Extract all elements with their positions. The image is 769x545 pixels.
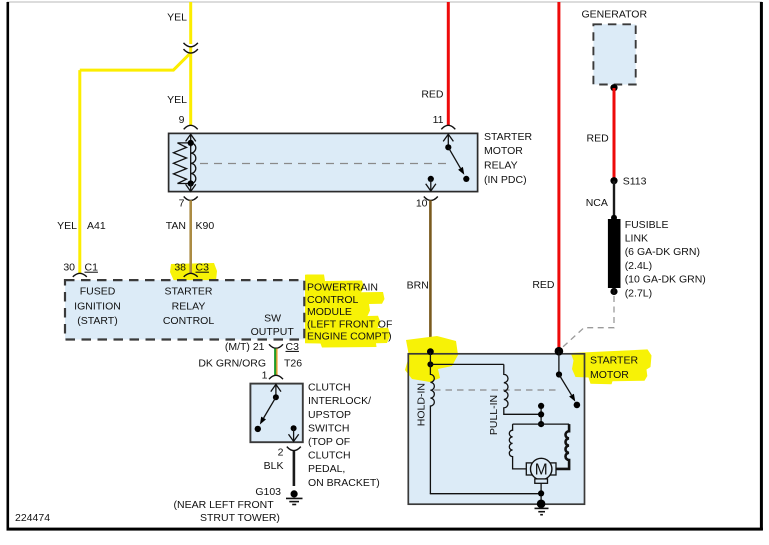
svg-text:A41: A41 — [87, 220, 106, 232]
svg-text:(M/T) 21: (M/T) 21 — [225, 341, 265, 353]
starter case ground — [535, 500, 549, 515]
label DK GRN/ORG T26 — [198, 357, 302, 369]
generator box — [593, 24, 635, 84]
highlight starter box corner — [405, 336, 458, 382]
label YEL A41 — [57, 220, 106, 232]
starter switch fixed contact node — [574, 402, 581, 409]
relay coil shaft — [190, 143, 192, 184]
highlight over C3 pin 38 — [170, 263, 217, 287]
connector at PCM pin 38 — [184, 273, 198, 277]
starter switch shaft — [558, 351, 560, 374]
label TAN K90 — [166, 220, 215, 232]
inline connector C100 on YEL — [184, 43, 198, 53]
connector at clutch switch pin 1 — [269, 375, 283, 379]
svg-text:7: 7 — [179, 198, 185, 210]
svg-text:MODULE: MODULE — [307, 306, 352, 318]
starter hold-in branch node — [427, 361, 433, 367]
svg-text:ON BRACKET): ON BRACKET) — [308, 477, 380, 489]
label fusible link — [625, 219, 706, 299]
svg-text:HOLD-IN: HOLD-IN — [415, 383, 427, 426]
svg-text:(2.7L): (2.7L) — [625, 287, 652, 299]
svg-text:RED: RED — [421, 89, 444, 101]
PCM label SW OUTPUT — [251, 313, 295, 339]
PCM module name label — [307, 282, 392, 343]
wire YEL main vertical top — [189, 2, 192, 44]
motor field coil left — [509, 424, 526, 469]
svg-text:STARTER: STARTER — [484, 131, 532, 143]
svg-text:FUSIBLE: FUSIBLE — [625, 219, 669, 231]
svg-text:OUTPUT: OUTPUT — [251, 326, 295, 338]
svg-text:LINK: LINK — [625, 233, 648, 245]
svg-text:BLK: BLK — [264, 460, 284, 472]
svg-text:38: 38 — [174, 262, 186, 274]
svg-text:POWERTRAIN: POWERTRAIN — [307, 282, 378, 294]
svg-text:10: 10 — [416, 198, 428, 210]
svg-text:SWITCH: SWITCH — [308, 422, 349, 434]
svg-text:CONTROL: CONTROL — [307, 294, 358, 306]
svg-text:S113: S113 — [623, 175, 647, 187]
clutch switch pin 1 arrow — [271, 384, 281, 394]
connector at relay pin 9 — [184, 125, 198, 129]
fusible link element — [608, 215, 621, 295]
clutch interlock switch box — [250, 384, 302, 443]
motor armature M — [531, 458, 552, 483]
svg-text:(2.4L): (2.4L) — [625, 260, 652, 272]
starter internal dashed line — [434, 389, 557, 391]
svg-text:(IN PDC): (IN PDC) — [484, 174, 527, 186]
clutch switch fixed contact node — [255, 426, 261, 432]
svg-text:(TOP OF: (TOP OF — [308, 436, 350, 448]
svg-text:MOTOR: MOTOR — [484, 145, 523, 157]
relay internal dashed line — [200, 163, 452, 165]
svg-text:ENGINE COMPT): ENGINE COMPT) — [307, 331, 392, 343]
relay coil resistor zigzag — [174, 143, 191, 184]
svg-text:9: 9 — [179, 114, 185, 126]
clutch switch pivot node — [273, 394, 279, 400]
label STARTER MOTOR — [590, 354, 638, 381]
relay box STARTER MOTOR RELAY — [169, 133, 478, 191]
dashed link fusible to starter stud — [560, 296, 615, 350]
svg-text:C1: C1 — [85, 262, 99, 274]
wire YEL branch diagonal — [80, 53, 191, 70]
svg-text:YEL: YEL — [167, 12, 187, 24]
svg-text:IGNITION: IGNITION — [74, 300, 121, 312]
label pin 30 C1 — [63, 262, 98, 274]
wire TAN pin7 to PCM 38 — [189, 200, 192, 273]
PCM box powertrain control module — [65, 280, 304, 339]
svg-text:RED: RED — [587, 132, 610, 144]
svg-text:(10 GA-DK GRN): (10 GA-DK GRN) — [625, 274, 706, 286]
svg-text:INTERLOCK/: INTERLOCK/ — [308, 395, 371, 407]
clutch switch label — [308, 382, 380, 489]
relay pin 11 arrow — [443, 134, 453, 144]
clutch switch blade — [260, 397, 276, 424]
wire RED to relay pin 11 — [447, 2, 450, 126]
relay coil node bottom — [188, 180, 194, 186]
label (M/T) 21 C3 — [225, 341, 299, 353]
svg-text:C3: C3 — [196, 262, 210, 274]
svg-text:CONTROL: CONTROL — [163, 315, 214, 327]
svg-text:11: 11 — [433, 114, 444, 126]
label pin 38 C3 — [174, 262, 209, 274]
ground G103 — [286, 490, 303, 504]
svg-text:RED: RED — [532, 279, 555, 291]
relay pin 9 arrow — [186, 134, 196, 147]
label ground location — [174, 499, 280, 524]
connector at PCM pin 21 — [269, 344, 283, 348]
wire RED long to starter — [557, 2, 560, 350]
clutch switch pin 2 node and stub — [289, 425, 299, 441]
starter contact column nodes — [538, 403, 544, 427]
svg-text:2: 2 — [278, 446, 284, 458]
relay pin 10 node and stub — [426, 176, 436, 191]
svg-text:(START): (START) — [77, 315, 117, 327]
motor branch rectangle top — [513, 423, 570, 425]
svg-text:TAN: TAN — [166, 220, 186, 232]
svg-text:YEL: YEL — [57, 220, 77, 232]
svg-text:CLUTCH: CLUTCH — [308, 382, 351, 394]
svg-text:YEL: YEL — [167, 94, 187, 106]
relay coil node top — [188, 140, 194, 146]
svg-text:BRN: BRN — [407, 279, 429, 291]
PCM label STARTER RELAY CONTROL — [163, 286, 214, 327]
svg-text:STARTER: STARTER — [590, 354, 638, 366]
wire RED generator to S113 — [613, 88, 616, 180]
motor output shaft wire — [540, 483, 542, 504]
svg-text:T26: T26 — [284, 357, 302, 369]
highlight POWERTRAIN CONTROL MODULE text — [305, 275, 391, 348]
motor field coil right — [556, 424, 569, 469]
relay switch blade — [448, 147, 464, 175]
svg-text:1: 1 — [262, 370, 268, 382]
connector at relay pin 10 — [424, 197, 438, 201]
svg-text:NCA: NCA — [586, 197, 608, 209]
connector at relay pin 11 — [441, 125, 455, 129]
pull-in coil — [504, 364, 541, 414]
svg-text:STRUT TOWER): STRUT TOWER) — [200, 512, 280, 524]
svg-text:PEDAL,: PEDAL, — [308, 463, 345, 475]
svg-text:(6 GA-DK GRN): (6 GA-DK GRN) — [625, 246, 700, 258]
starter motor box fill — [408, 354, 584, 504]
relay pin 7 arrow — [186, 184, 196, 192]
connector at relay pin 7 — [184, 197, 198, 201]
hold-in coil — [430, 352, 434, 494]
wire BLK to ground — [293, 451, 296, 486]
svg-text:224474: 224474 — [15, 512, 50, 524]
starter switch blade — [559, 375, 575, 402]
wire YEL left vertical — [78, 70, 81, 274]
relay coil winding — [191, 143, 196, 184]
motor brush left — [526, 463, 533, 475]
starter solenoid stud node — [555, 347, 564, 356]
highlight STARTER MOTOR label — [571, 349, 652, 384]
starter motor box border — [408, 354, 584, 504]
svg-text:CLUTCH: CLUTCH — [308, 450, 351, 462]
svg-text:RELAY: RELAY — [484, 160, 518, 172]
starter switch pivot node — [556, 371, 562, 377]
svg-text:DK GRN/ORG: DK GRN/ORG — [198, 357, 266, 369]
connector at PCM pin 30 — [73, 273, 87, 277]
wire DK GRN/ORG — [275, 349, 277, 376]
relay switch fixed contact node — [463, 176, 469, 182]
junction node motor/holdin — [538, 490, 544, 496]
splice S113 — [610, 177, 617, 184]
motor brush right — [549, 463, 556, 475]
svg-text:PULL-IN: PULL-IN — [488, 395, 500, 435]
svg-text:K90: K90 — [196, 220, 215, 232]
connector at clutch pin 2 — [287, 447, 301, 451]
svg-text:C3: C3 — [286, 341, 300, 353]
svg-text:M: M — [535, 462, 548, 479]
wire BRN pin10 to starter — [429, 200, 432, 352]
wire hold-in to pull-in top — [430, 363, 503, 365]
svg-text:MOTOR: MOTOR — [590, 369, 629, 381]
svg-text:G103: G103 — [255, 486, 281, 498]
generator output node — [610, 84, 617, 91]
svg-text:UPSTOP: UPSTOP — [308, 409, 351, 421]
svg-text:30: 30 — [63, 262, 75, 274]
svg-text:RELAY: RELAY — [172, 300, 206, 312]
svg-text:GENERATOR: GENERATOR — [582, 8, 648, 20]
svg-text:(LEFT FRONT OF: (LEFT FRONT OF — [307, 318, 392, 330]
relay label — [484, 131, 532, 186]
wire YEL below inline connector to relay pin 9 — [189, 47, 192, 126]
svg-text:SW: SW — [264, 313, 281, 325]
svg-text:STARTER: STARTER — [164, 286, 212, 298]
starter BRN entry node — [427, 348, 434, 355]
hold-in return wire — [430, 493, 541, 495]
svg-text:(NEAR LEFT FRONT: (NEAR LEFT FRONT — [174, 499, 275, 511]
wire NCA S113 to fusible link — [613, 181, 615, 219]
svg-text:FUSED: FUSED — [80, 286, 116, 298]
relay switch pivot node — [445, 144, 451, 150]
PCM label FUSED IGNITION (START) — [74, 286, 121, 327]
